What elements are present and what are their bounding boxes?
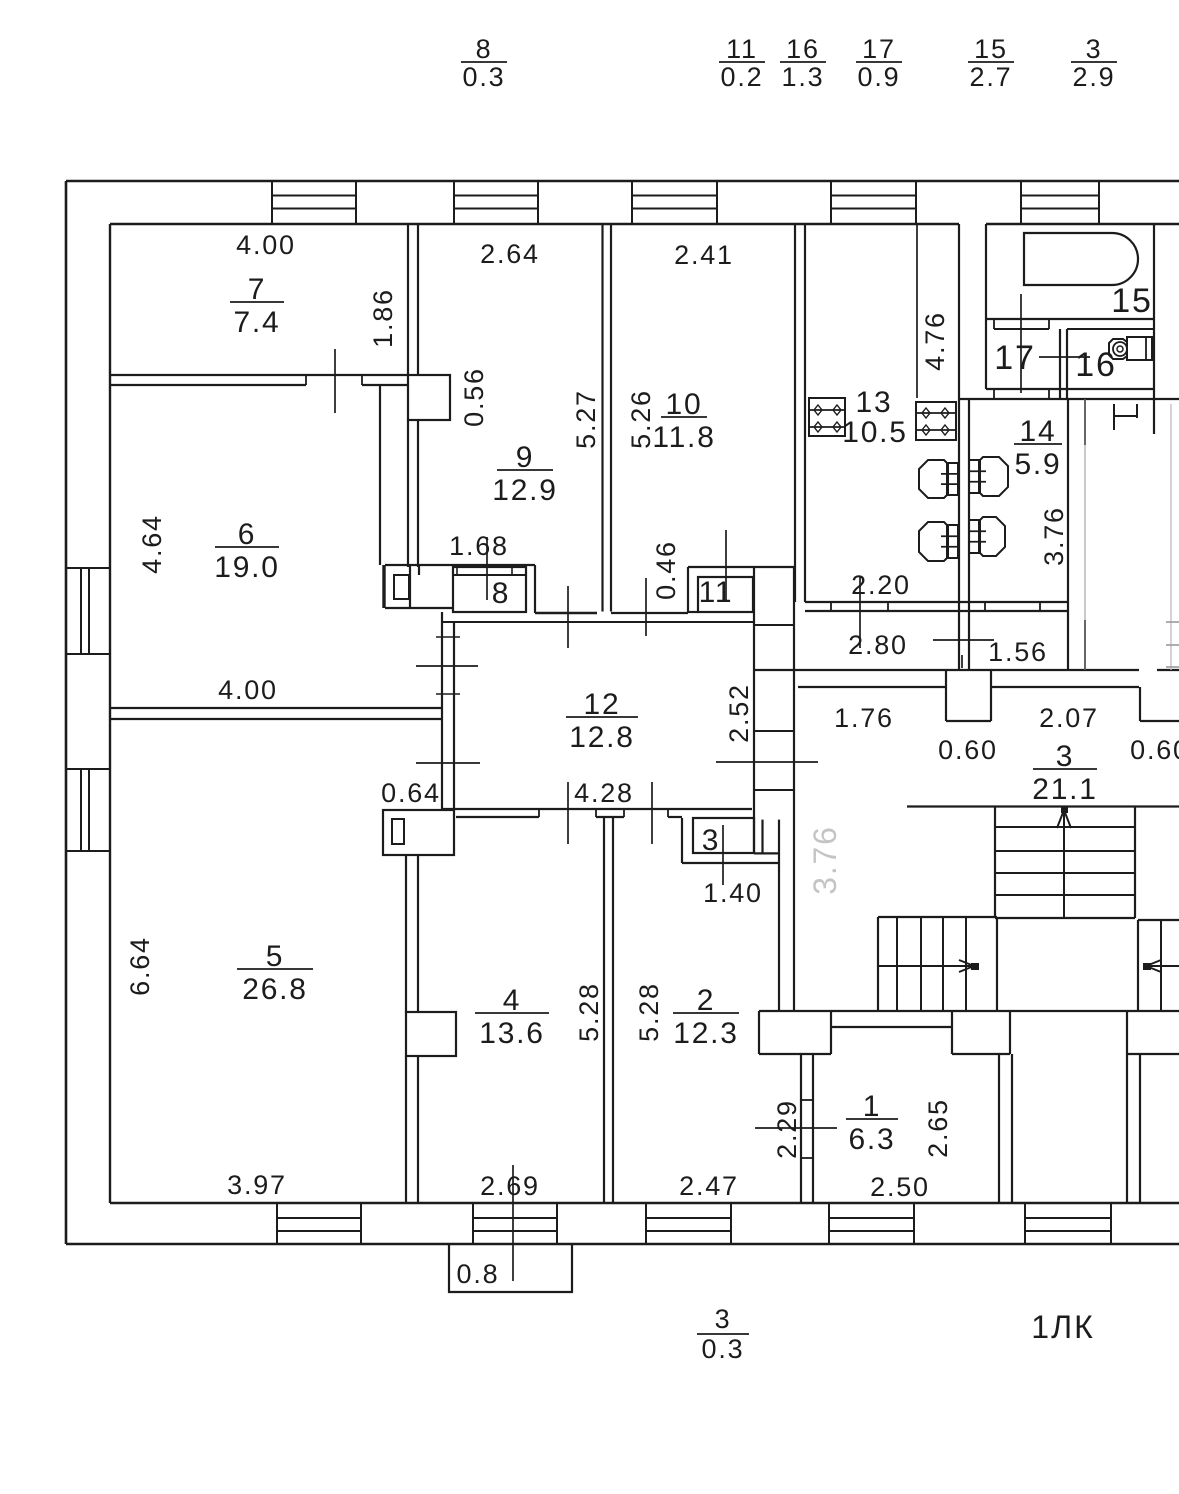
svg-text:2.29: 2.29	[772, 1099, 802, 1159]
svg-text:0.60: 0.60	[1130, 735, 1179, 765]
svg-text:0.60: 0.60	[938, 735, 998, 765]
svg-text:2.52: 2.52	[724, 683, 754, 743]
door tick	[436, 636, 460, 638]
niche H symbol	[1113, 404, 1115, 430]
svg-text:4.64: 4.64	[137, 514, 167, 574]
wall room13/room14 south	[805, 601, 1068, 603]
svg-text:0.3: 0.3	[702, 1334, 745, 1364]
wall room17/room16	[1059, 329, 1061, 398]
pier 0.64	[383, 810, 454, 855]
wall room7/room9	[407, 224, 409, 375]
closet 8 inner box	[453, 567, 526, 612]
svg-text:2.69: 2.69	[480, 1171, 540, 1201]
svg-text:16: 16	[1075, 346, 1116, 384]
stair landing top edge	[907, 805, 1179, 807]
svg-text:13: 13	[856, 386, 893, 419]
window WA room6	[66, 567, 110, 569]
window WB room5	[66, 768, 110, 770]
svg-text:2.9: 2.9	[1073, 62, 1116, 92]
outer wall bottom outer line	[66, 1243, 1179, 1246]
toilet room13 upper	[919, 460, 948, 498]
svg-text:4.00: 4.00	[218, 675, 278, 705]
svg-text:2: 2	[697, 984, 716, 1017]
sink room16	[1109, 339, 1127, 359]
wall room9 west below pier	[407, 420, 409, 567]
svg-text:3: 3	[702, 824, 721, 857]
room1 west wall	[800, 1054, 802, 1203]
svg-text:19.0: 19.0	[214, 551, 280, 584]
pier left	[758, 1011, 760, 1054]
svg-text:2.41: 2.41	[674, 240, 734, 270]
svg-text:17: 17	[994, 339, 1035, 377]
window W7 room5	[276, 1203, 278, 1244]
svg-text:17: 17	[862, 34, 896, 64]
wall room7/room6	[110, 374, 408, 376]
svg-text:1.86: 1.86	[368, 288, 398, 348]
toilet room14 lower	[979, 517, 1005, 556]
svg-text:8: 8	[476, 34, 493, 64]
entrance east wall	[1126, 1054, 1128, 1203]
faint wall stair west upper	[1084, 399, 1086, 445]
svg-text:1.40: 1.40	[703, 878, 763, 908]
wall room10/room13	[794, 224, 796, 602]
room9 south door zone	[535, 612, 597, 614]
svg-text:5.28: 5.28	[634, 982, 664, 1042]
room1 east wall	[998, 1054, 1000, 1203]
svg-text:6.3: 6.3	[848, 1123, 895, 1156]
toilet room13 lower	[919, 522, 948, 561]
bath block east wall	[1153, 224, 1155, 434]
svg-text:2.65: 2.65	[923, 1098, 953, 1158]
window W10 room1	[828, 1203, 830, 1244]
wall room13/room14 toilet column	[958, 224, 960, 670]
faint right edge	[1170, 404, 1172, 670]
stair lower flight left	[878, 916, 997, 918]
svg-text:4: 4	[503, 984, 522, 1017]
window W5 bath	[1020, 181, 1022, 224]
svg-text:12.8: 12.8	[569, 721, 635, 754]
porch 0.8	[449, 1244, 572, 1292]
window W4 room13	[830, 181, 832, 224]
pier 0.60 left	[945, 670, 947, 721]
pier 0.60 right	[1139, 687, 1141, 721]
svg-text:2.07: 2.07	[1039, 703, 1099, 733]
window W2 room9	[453, 181, 455, 224]
svg-text:1.56: 1.56	[988, 637, 1048, 667]
pier middle	[951, 1011, 953, 1054]
stair arrow right	[959, 960, 974, 972]
room10 south line	[611, 612, 688, 614]
svg-text:6.64: 6.64	[125, 936, 155, 996]
wall room2/stair hall	[778, 853, 780, 1011]
wall room6 east	[379, 385, 381, 565]
svg-text:4.28: 4.28	[574, 778, 634, 808]
pier door square	[392, 819, 404, 844]
closet 11 inner box	[698, 577, 753, 612]
svg-text:1.76: 1.76	[834, 703, 894, 733]
window W3 room10	[631, 181, 633, 224]
dimension ticks	[334, 349, 336, 413]
wall bath15 south	[986, 318, 1154, 320]
outer wall left outer line	[65, 181, 68, 1244]
outer wall top outer line	[66, 180, 1179, 183]
svg-text:12.3: 12.3	[673, 1017, 739, 1050]
svg-text:11: 11	[699, 576, 734, 609]
stair arrow left	[1146, 960, 1161, 972]
closet 8 door pivot square	[394, 575, 409, 599]
svg-text:1ЛК: 1ЛК	[1031, 1309, 1094, 1345]
svg-text:0.3: 0.3	[463, 62, 506, 92]
svg-text:3.97: 3.97	[227, 1170, 287, 1200]
svg-text:0.9: 0.9	[858, 62, 901, 92]
radiator 13 right	[916, 402, 956, 440]
outer wall bottom inner line	[110, 1202, 1179, 1204]
svg-text:12: 12	[584, 688, 621, 721]
svg-text:15: 15	[1111, 282, 1152, 320]
svg-text:0.2: 0.2	[721, 62, 764, 92]
pier right	[1126, 1011, 1128, 1054]
svg-text:12.9: 12.9	[492, 474, 558, 507]
svg-text:3: 3	[715, 1304, 732, 1334]
svg-text:2.7: 2.7	[970, 62, 1013, 92]
closet 3 inner box	[693, 818, 754, 853]
svg-text:4.00: 4.00	[236, 230, 296, 260]
outer wall top inner line west part	[110, 223, 959, 225]
closet 11	[688, 566, 794, 568]
svg-text:13.6: 13.6	[479, 1017, 545, 1050]
window W8 room4	[472, 1203, 474, 1244]
corridor12 north line	[442, 621, 754, 623]
svg-text:0.8: 0.8	[457, 1259, 500, 1289]
svg-text:6: 6	[238, 518, 257, 551]
svg-text:26.8: 26.8	[242, 973, 308, 1006]
window W11 entrance	[1024, 1203, 1026, 1244]
pier mid room4/5	[406, 1012, 456, 1056]
svg-text:1.68: 1.68	[449, 531, 509, 561]
svg-text:2.50: 2.50	[870, 1172, 930, 1202]
svg-text:3.76: 3.76	[807, 825, 843, 894]
stair lower flight right	[1138, 919, 1179, 921]
svg-text:5.9: 5.9	[1014, 448, 1061, 481]
svg-text:2.64: 2.64	[480, 239, 540, 269]
stair upper flight	[994, 807, 996, 919]
svg-text:3.76: 3.76	[1039, 506, 1069, 566]
svg-text:14: 14	[1020, 415, 1057, 448]
wall room9/room10	[601, 224, 603, 612]
svg-text:8: 8	[492, 577, 511, 610]
svg-text:7.4: 7.4	[233, 306, 280, 339]
window W1 room7	[271, 181, 273, 224]
svg-text:2.47: 2.47	[679, 1171, 739, 1201]
wall room14 east	[1067, 399, 1069, 670]
outer wall top inner line east part	[986, 223, 1179, 225]
svg-text:5.26: 5.26	[626, 389, 656, 449]
window W9 room2	[645, 1203, 647, 1244]
toilet room14 upper	[979, 457, 1008, 496]
svg-text:1.3: 1.3	[782, 62, 825, 92]
svg-text:11.8: 11.8	[652, 421, 715, 454]
svg-text:7: 7	[248, 273, 267, 306]
svg-text:0.64: 0.64	[381, 778, 441, 808]
svg-text:10.5: 10.5	[842, 416, 908, 449]
svg-text:1: 1	[863, 1090, 882, 1123]
vestibule wall	[831, 1026, 952, 1028]
stair arrow up	[1057, 810, 1071, 828]
wall room6/room5	[110, 707, 442, 709]
wall room4/room2	[603, 818, 605, 1203]
svg-text:2.80: 2.80	[848, 630, 908, 660]
svg-text:9: 9	[516, 441, 535, 474]
svg-text:11: 11	[726, 34, 758, 64]
svg-text:0.46: 0.46	[651, 540, 681, 600]
stair hall south wall	[759, 1010, 1179, 1012]
svg-text:3: 3	[1056, 740, 1075, 773]
svg-text:5: 5	[266, 940, 285, 973]
wall corridor3 south	[754, 669, 1139, 671]
stair arrow line	[878, 965, 974, 967]
svg-text:3: 3	[1086, 34, 1103, 64]
closet 3	[681, 818, 683, 863]
wall column corridor/room3	[753, 567, 755, 853]
svg-text:4.76: 4.76	[920, 311, 950, 371]
niche east of closet 3	[761, 820, 763, 854]
outer wall left inner line	[109, 224, 111, 1203]
bath block west wall	[985, 224, 987, 389]
door tick	[436, 693, 460, 695]
svg-text:5.28: 5.28	[574, 982, 604, 1042]
svg-text:21.1: 21.1	[1032, 773, 1098, 806]
svg-text:10: 10	[666, 388, 703, 421]
svg-text:0.56: 0.56	[459, 367, 489, 427]
wall corridor12 west	[441, 612, 443, 809]
wall pier 0.56	[408, 375, 450, 420]
svg-text:2.20: 2.20	[851, 570, 911, 600]
stair stringer	[1063, 807, 1065, 919]
svg-text:16: 16	[786, 34, 820, 64]
wall corridor12 south	[442, 808, 752, 810]
bath block south wall	[986, 388, 1154, 390]
bath tub room15	[1024, 233, 1138, 285]
svg-text:5.27: 5.27	[571, 389, 601, 449]
svg-text:15: 15	[974, 34, 1008, 64]
radiator 13 left	[809, 398, 845, 436]
closet 8	[385, 564, 535, 566]
